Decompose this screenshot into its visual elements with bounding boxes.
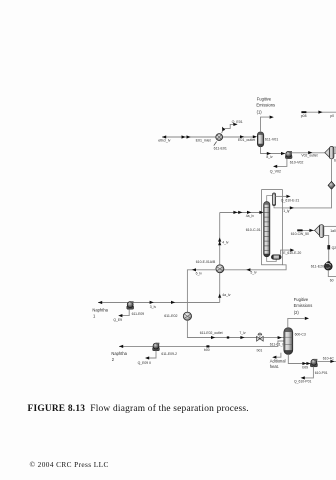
svg-text:p08: p08 (301, 114, 307, 118)
svg-text:(2): (2) (294, 310, 300, 315)
svg-text:E_610-E-20: E_610-E-20 (283, 251, 301, 255)
svg-text:Q_610-E-21: Q_610-E-21 (281, 198, 300, 202)
svg-text:b01: b01 (257, 348, 263, 352)
svg-text:b00: b00 (204, 348, 210, 352)
energy stream Q_610-P01 (304, 367, 314, 378)
svg-text:1_ly: 1_ly (283, 209, 290, 213)
svg-text:611-E09-2: 611-E09-2 (161, 352, 177, 356)
wire E-01A/B down to naphtha line (219, 273, 221, 303)
svg-text:610-CW_50: 610-CW_50 (291, 232, 309, 236)
svg-text:heat.: heat. (270, 364, 279, 369)
energy stream Q_E09 (121, 309, 129, 315)
pump 611-E09 (127, 301, 134, 309)
column 610-C01 (264, 202, 270, 257)
stream arrow Fugitive Emissions (2) (305, 317, 309, 320)
wire E-01A/B up to feed corner (219, 213, 221, 265)
heater 611-E01 (214, 134, 223, 146)
compressor 610-K01 (325, 147, 336, 159)
wire V01 bottom to pump 610-V02 (261, 147, 286, 154)
svg-text:V02_outlet: V02_outlet (301, 154, 317, 158)
svg-text:610-P01: 610-P01 (315, 371, 328, 375)
svg-text:5_lv: 5_lv (250, 271, 257, 275)
svg-text:FIGURE 8.13 Flow diagram of t: FIGURE 8.13 Flow diagram of the separati… (28, 403, 249, 414)
svg-text:p0: p0 (330, 114, 334, 118)
svg-text:Fugitive: Fugitive (257, 96, 272, 101)
energy stream Q_V02 (275, 159, 287, 167)
svg-text:7_lv: 7_lv (239, 331, 246, 335)
svg-text:611-E02_outlet: 611-E02_outlet (200, 331, 223, 335)
svg-text:Emissions: Emissions (294, 303, 313, 308)
wire bottoms from box to pump 610-E-01A/B (224, 265, 286, 270)
svg-text:3_lv: 3_lv (150, 305, 157, 309)
svg-text:Q_V02: Q_V02 (270, 170, 281, 174)
svg-text:Aditional: Aditional (270, 359, 286, 364)
pump 611-E09-2 (153, 343, 160, 351)
wire E-01A/B left then down to 611-E02 (187, 270, 216, 312)
pump 611-E20 (324, 262, 332, 270)
svg-text:(1): (1) (257, 109, 263, 114)
vessel 611-V01 (257, 132, 263, 147)
energy stream Aditional heat (276, 353, 281, 357)
svg-text:1: 1 (93, 314, 96, 319)
stream arrows on feed line (182, 135, 186, 138)
wire blower outlet right (324, 225, 336, 227)
energy stream Q_E09-2 (148, 351, 156, 358)
stream p08 top right (303, 111, 336, 113)
pump 610-P01 (310, 359, 317, 367)
wire valve to vessel 610-C02 (263, 337, 284, 339)
svg-text:600-C3: 600-C3 (295, 333, 306, 337)
svg-text:60: 60 (330, 278, 334, 282)
energy stream Q_E01 (222, 124, 234, 133)
svg-text:Q2: Q2 (332, 246, 336, 250)
svg-text:Q_610-P01: Q_610-P01 (294, 379, 311, 383)
condenser 610-E21 drum (272, 193, 275, 206)
wire naphtha 1 line (98, 302, 220, 304)
svg-text:610-V02: 610-V02 (290, 161, 304, 165)
wire feed into column box (220, 212, 262, 214)
valve VLV (diamond) (328, 182, 335, 190)
wire feed line ethcl to E01 (162, 136, 255, 138)
svg-text:E01_inlet: E01_inlet (196, 139, 211, 143)
wire V02 outlet to compressor (292, 152, 325, 154)
svg-text:4_lv: 4_lv (222, 241, 229, 245)
svg-text:6_lv: 6_lv (196, 271, 203, 275)
svg-text:1a0: 1a0 (330, 229, 336, 233)
stream arrow E01_outlet (240, 135, 244, 138)
svg-text:611-E01: 611-E01 (214, 147, 227, 151)
svg-text:8_lv: 8_lv (266, 155, 273, 159)
wire vent from V01 top (261, 117, 270, 132)
svg-text:611-E09: 611-E09 (132, 312, 145, 316)
wire valve down and left to column box (283, 189, 332, 208)
svg-text:Q_E9: Q_E9 (113, 318, 122, 322)
svg-text:Emissions: Emissions (256, 103, 275, 108)
wire naphtha 2 line (119, 341, 284, 346)
svg-text:610-E-01A/B: 610-E-01A/B (196, 260, 216, 264)
stream arrow ethcl_lv (left end) (162, 135, 166, 138)
energy stream Q_610-E-21 (276, 195, 287, 197)
svg-text:Naphtha: Naphtha (92, 308, 108, 313)
svg-text:610-C-01: 610-C-01 (246, 228, 261, 232)
blower 610-K02 (315, 225, 324, 238)
svg-text:2: 2 (112, 357, 115, 362)
svg-text:© 2004 CRC Press LLC: © 2004 CRC Press LLC (30, 460, 109, 469)
svg-text:E01_outlet: E01_outlet (238, 138, 255, 142)
stream arrow into V01 (253, 135, 257, 138)
column 610-C01 internals wires (267, 196, 283, 262)
wire E20 outlet to right edge (328, 270, 336, 277)
svg-text:Q_E09 II: Q_E09 II (138, 361, 151, 365)
valve V01 (257, 333, 264, 341)
wire E02 outlet to valve (187, 320, 256, 337)
energy stream Q_610-E-20 (281, 250, 290, 255)
reboiler 610-E20 drum (271, 255, 281, 259)
pump 611-E02 (183, 312, 191, 320)
svg-text:4a_lv: 4a_lv (222, 293, 230, 297)
svg-text:4a_lv: 4a_lv (246, 214, 254, 218)
svg-text:611-E20: 611-E20 (311, 265, 324, 269)
vessel 610-C02 (284, 328, 293, 355)
column subflowsheet box (262, 190, 283, 265)
svg-text:611-E02: 611-E02 (164, 314, 177, 318)
svg-text:Fugitive: Fugitive (294, 297, 309, 302)
svg-text:611-V01: 611-V01 (265, 138, 278, 142)
svg-text:Naphtha: Naphtha (111, 351, 127, 356)
svg-text:Q_E01: Q_E01 (232, 120, 243, 124)
exchanger 610-E-01A/B (216, 265, 224, 273)
wire vent from C02 top (288, 318, 305, 327)
wire P01 outlet right (317, 360, 336, 362)
valve (solid) on riser (327, 245, 330, 249)
stream arrow Fugitive Emissions (1) (270, 116, 274, 119)
wire C02 bottoms to pump 610-P01 (288, 354, 310, 363)
svg-text:ethcl_lv: ethcl_lv (158, 139, 170, 143)
wire compressor down to valve (331, 159, 333, 182)
svg-text:610-4C: 610-4C (323, 356, 335, 360)
pump 610-V02 (285, 151, 292, 159)
stream 610-CW to blower (299, 229, 315, 231)
svg-text:b09: b09 (302, 365, 308, 369)
wire blower down to valve and pump 611-E20 (324, 235, 329, 262)
